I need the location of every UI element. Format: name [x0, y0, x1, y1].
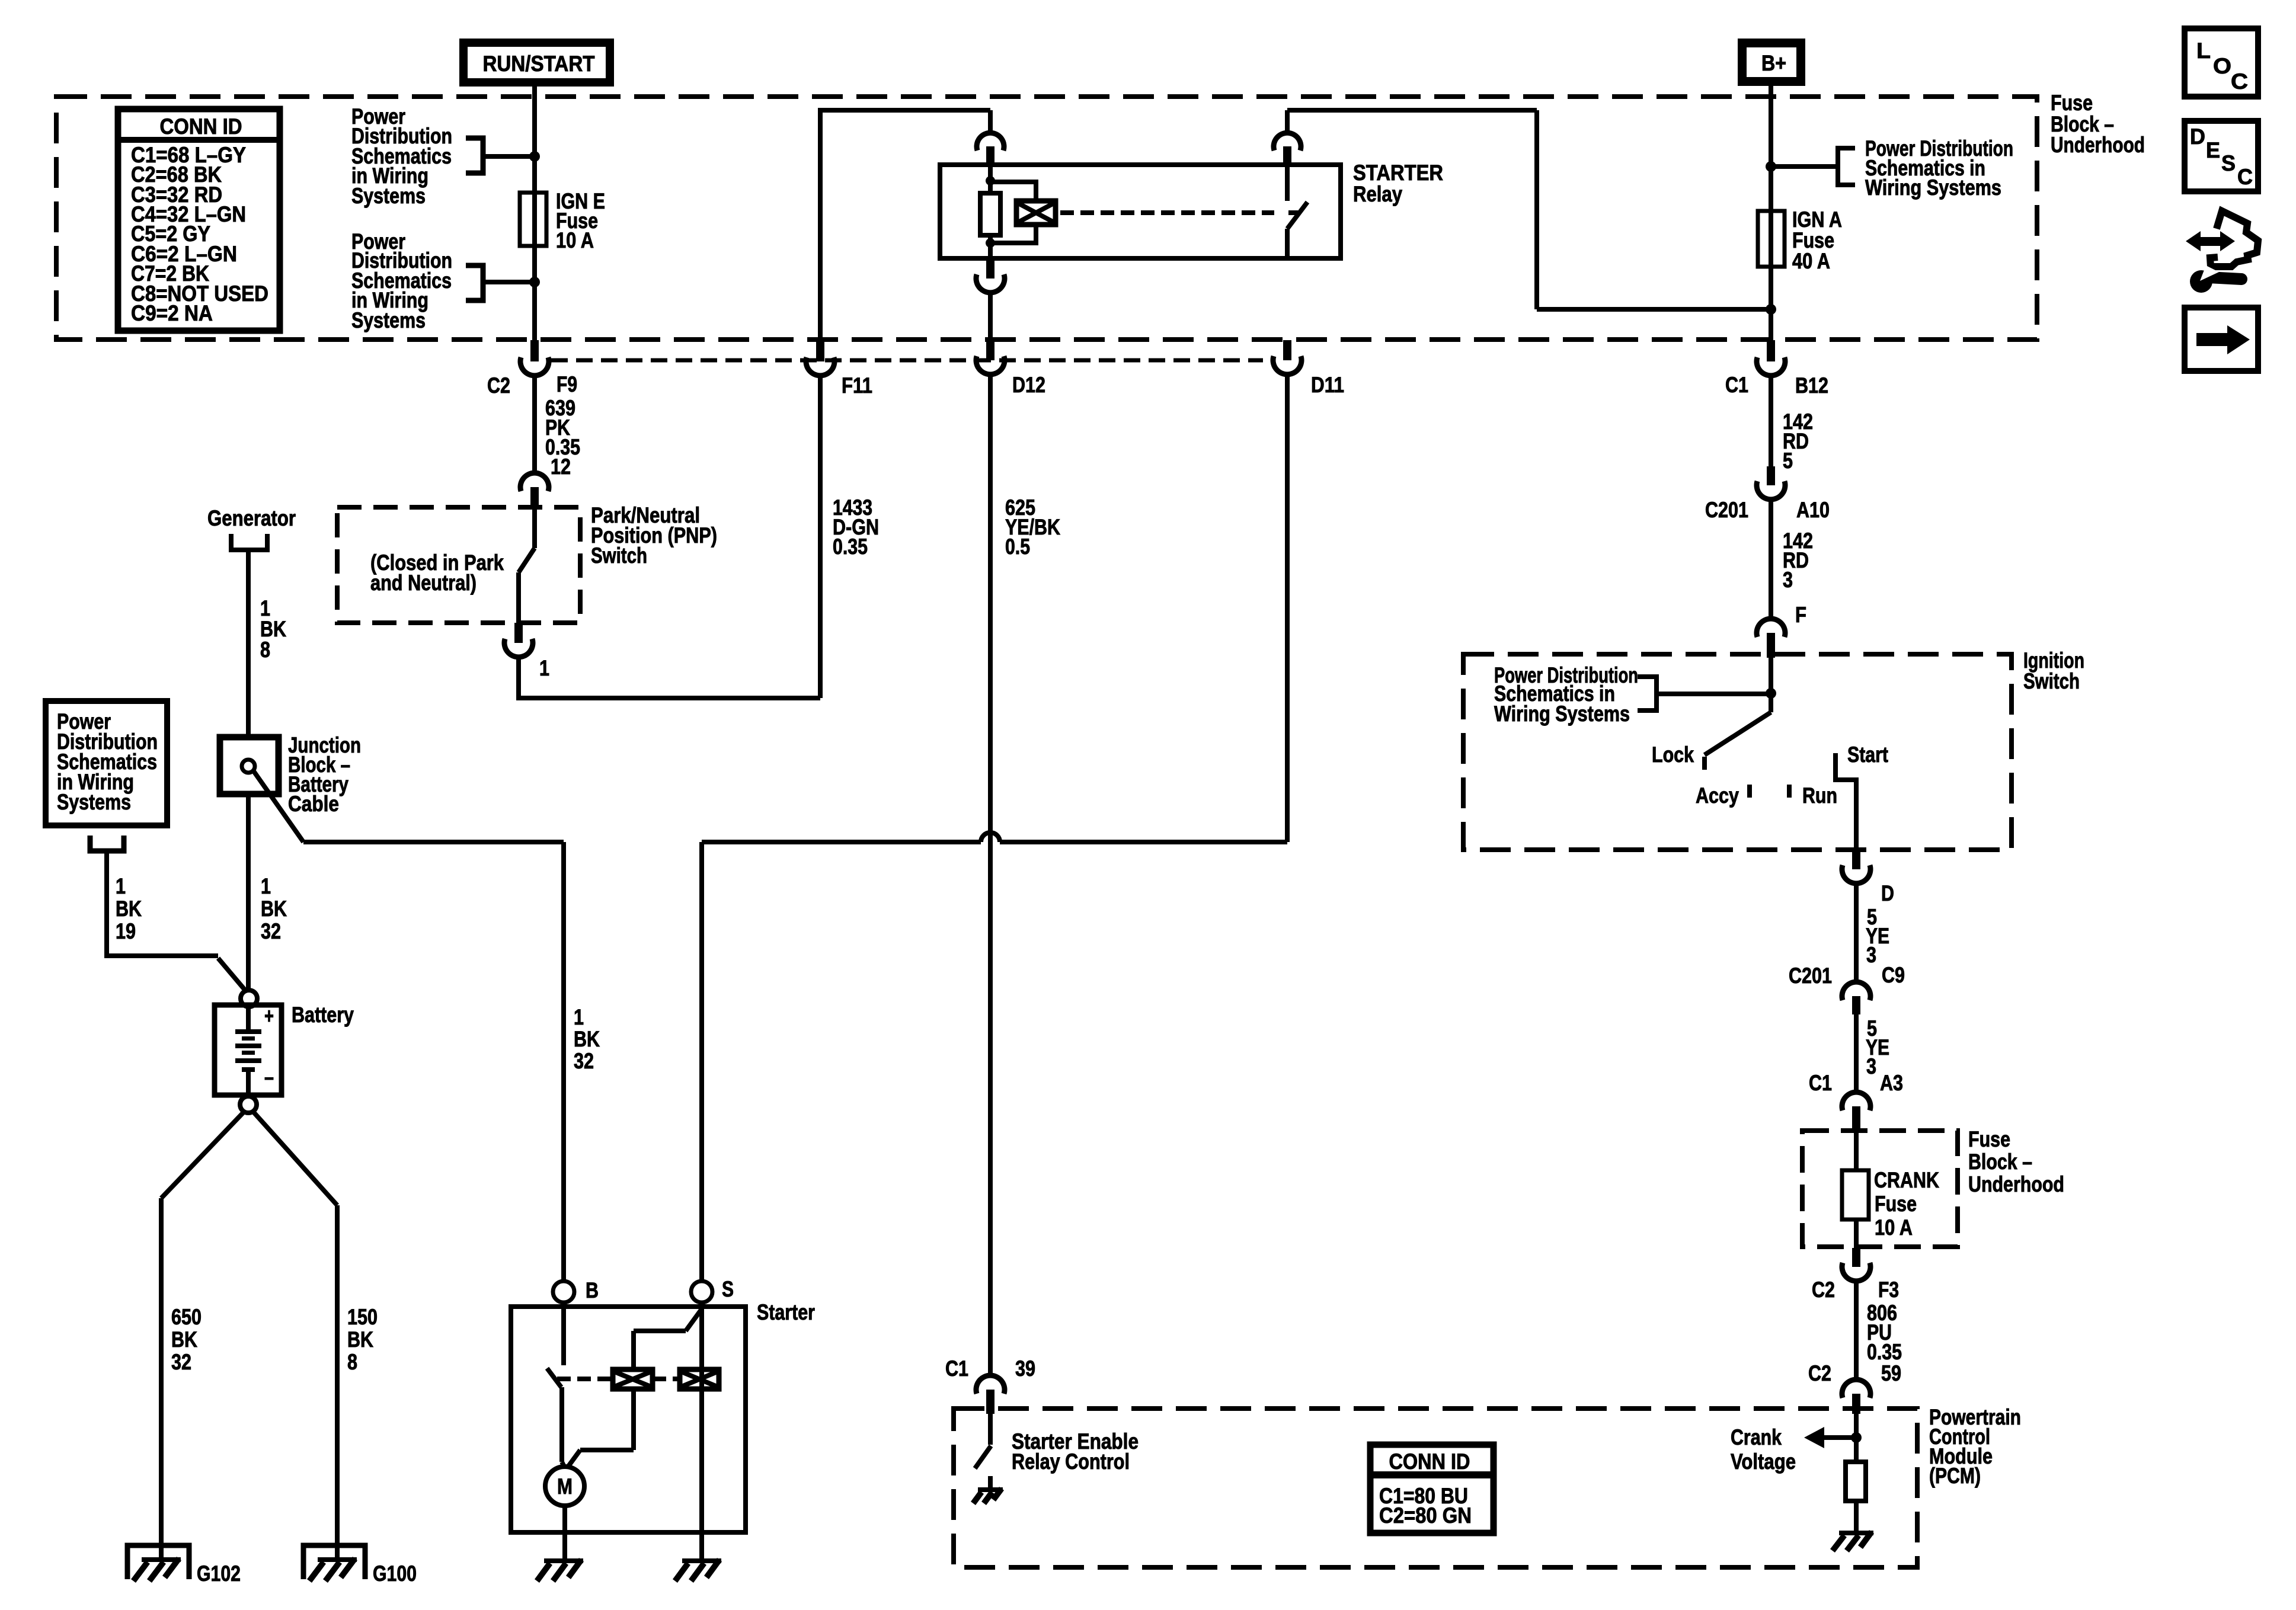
- starter enable relay control switch: [975, 1414, 991, 1489]
- svg-text:Wiring Systems: Wiring Systems: [1494, 702, 1630, 726]
- generator terminal bracket: [231, 534, 267, 550]
- svg-text:A10: A10: [1796, 498, 1830, 522]
- CONN ID table PCM: [1370, 1445, 1494, 1533]
- wire 5 YE 3 lower: [1856, 1014, 1889, 1093]
- svg-text:10 A: 10 A: [556, 228, 594, 252]
- ground starter solenoid: [682, 1558, 721, 1563]
- wire RUN/START feed down to connector C2: [532, 82, 537, 341]
- terminal S: [691, 1277, 734, 1302]
- label Ignition Switch: [2023, 648, 2084, 693]
- starter solenoid hold-in winding: [680, 1369, 719, 1389]
- svg-text:Wiring Systems: Wiring Systems: [1865, 175, 2001, 200]
- svg-text:Block –: Block –: [1968, 1150, 2032, 1174]
- fuse block underhood dashed box (crank): [1802, 1131, 1958, 1247]
- bracket to power distribution upper: [466, 138, 535, 173]
- svg-text:Systems: Systems: [57, 790, 131, 814]
- svg-text:1: 1: [574, 1005, 584, 1029]
- wire B+ feed: [1769, 80, 1773, 341]
- ground PCM internal: [1839, 1531, 1873, 1535]
- contact Start: [1835, 742, 1888, 852]
- connector at PNP switch pin 12: [520, 473, 549, 507]
- fuse IGN E 10A: [520, 189, 605, 252]
- wire relay switch feed from IGN A: [1287, 110, 1771, 309]
- svg-text:A3: A3: [1880, 1071, 1903, 1095]
- svg-text:19: 19: [116, 919, 136, 943]
- bracket to power distribution ignition: [1638, 677, 1771, 710]
- node junction dot on RUN/START feed upper: [529, 151, 540, 162]
- connector C201 pin C9: [1789, 963, 1905, 1014]
- connector PNP pin 1: [504, 623, 549, 680]
- svg-text:150: 150: [347, 1305, 378, 1329]
- svg-text:32: 32: [171, 1350, 191, 1374]
- connector C2 pin F3: [1812, 1248, 1899, 1302]
- svg-text:and Neutral): and Neutral): [370, 571, 477, 595]
- svg-text:C2: C2: [1808, 1361, 1831, 1385]
- svg-text:10 A: 10 A: [1875, 1215, 1913, 1240]
- ground G100: [303, 1545, 417, 1586]
- svg-text:S: S: [2221, 151, 2236, 175]
- PNP switch contacts: [519, 507, 535, 623]
- connector D12: [976, 340, 1045, 397]
- svg-text:BK: BK: [171, 1327, 197, 1352]
- svg-text:C9=2 NA: C9=2 NA: [131, 301, 213, 325]
- wire crank fuse to C2: [1854, 1219, 1859, 1249]
- starter relay linkage (dashed): [1060, 210, 1298, 215]
- svg-text:F: F: [1795, 603, 1806, 627]
- connector F11: [806, 340, 872, 398]
- connector C2 pin 59: [1808, 1361, 1901, 1414]
- svg-text:3: 3: [1783, 568, 1793, 592]
- svg-text:G100: G100: [373, 1561, 417, 1586]
- ground starter enable: [978, 1487, 1003, 1492]
- icon LOC box: [2185, 28, 2258, 97]
- svg-text:Battery: Battery: [292, 1003, 354, 1027]
- bracket below power distribution box: [90, 836, 124, 851]
- contact Accy: [1696, 783, 1752, 808]
- svg-text:O: O: [2213, 54, 2231, 78]
- node junction dot IGN A top: [1766, 161, 1776, 172]
- resistor PCM pull-down: [1846, 1462, 1866, 1501]
- wire junction block to battery positive: [248, 794, 287, 990]
- label power distribution schematics battery box: [46, 701, 167, 825]
- svg-text:Fuse: Fuse: [1968, 1127, 2010, 1151]
- svg-text:+: +: [264, 1004, 274, 1028]
- svg-text:Lock: Lock: [1652, 742, 1694, 767]
- connector C2 pin F9: [487, 340, 577, 398]
- connector D: [1842, 850, 1894, 905]
- svg-text:CONN ID: CONN ID: [1389, 1449, 1470, 1474]
- svg-text:Accy: Accy: [1696, 783, 1739, 808]
- svg-text:39: 39: [1015, 1356, 1035, 1381]
- label Crank Voltage: [1731, 1425, 1796, 1474]
- svg-text:G102: G102: [197, 1561, 241, 1586]
- starter relay coil suppressor: [990, 182, 1056, 243]
- wire PNP pin 1 to F11: [519, 657, 820, 698]
- wire battery negative to G102: [161, 1112, 244, 1561]
- svg-text:B12: B12: [1795, 373, 1828, 398]
- starter relay box: [940, 165, 1341, 258]
- node junction dot IGN A bottom: [1766, 304, 1776, 315]
- wire resistor to ground: [1854, 1501, 1859, 1532]
- svg-text:Voltage: Voltage: [1731, 1449, 1796, 1474]
- svg-text:C2: C2: [487, 373, 510, 398]
- connector C1 pin A3: [1809, 1071, 1903, 1129]
- wire starter S to ground: [699, 1302, 704, 1560]
- svg-text:M: M: [557, 1474, 573, 1499]
- ground starter motor: [544, 1558, 583, 1563]
- svg-text:(PCM): (PCM): [1929, 1464, 1981, 1488]
- label power distribution schematics ignition: [1494, 663, 1638, 726]
- svg-text:C9: C9: [1882, 963, 1905, 987]
- power feed box RUN/START: [463, 43, 610, 82]
- starter motor M: [545, 1467, 584, 1506]
- starter solenoid contact switch: [547, 1302, 565, 1468]
- svg-text:D11: D11: [1311, 373, 1344, 397]
- svg-text:650: 650: [171, 1305, 202, 1329]
- starter solenoid pull-in winding: [613, 1369, 653, 1389]
- wire 1433 D-GN labels: [820, 376, 879, 698]
- svg-text:0.35: 0.35: [1867, 1340, 1902, 1364]
- wire 1 BK 19 to battery positive: [107, 853, 247, 993]
- icon arrow box: [2185, 308, 2258, 371]
- label power distribution schematics right: [1865, 136, 2013, 200]
- starter S internal wiring: [567, 1309, 702, 1468]
- power feed box B+: [1742, 43, 1801, 82]
- node ignition switch common: [1766, 658, 1776, 712]
- fuse IGN A 40A: [1758, 207, 1842, 273]
- svg-text:59: 59: [1881, 1361, 1901, 1385]
- wire D11 to starter S terminal: [702, 375, 1287, 1282]
- wire 142 RD 3: [1771, 500, 1813, 620]
- svg-text:Relay: Relay: [1353, 182, 1402, 206]
- svg-text:S: S: [722, 1277, 734, 1301]
- starter box: [511, 1307, 746, 1532]
- svg-text:B+: B+: [1761, 51, 1786, 75]
- ground G102: [127, 1545, 241, 1586]
- svg-text:C: C: [2231, 69, 2248, 94]
- svg-text:C201: C201: [1789, 964, 1832, 988]
- svg-text:F11: F11: [842, 373, 872, 398]
- bracket to power distribution right: [1771, 148, 1855, 185]
- svg-text:F3: F3: [1878, 1278, 1899, 1302]
- wire F11 up to starter relay coil: [818, 110, 990, 341]
- svg-text:F9: F9: [557, 372, 577, 396]
- svg-text:C2: C2: [1812, 1278, 1835, 1302]
- svg-text:Start: Start: [1847, 742, 1888, 767]
- connector line (dotted): [551, 359, 1263, 363]
- svg-text:Crank: Crank: [1731, 1425, 1782, 1449]
- CONN ID table underhood: [118, 109, 280, 331]
- wire 5 YE 3 upper: [1856, 884, 1889, 983]
- svg-text:32: 32: [261, 919, 281, 943]
- ignition switch dashed box: [1463, 654, 2012, 850]
- starter solenoid linkage dashed: [557, 1377, 680, 1381]
- wire starter motor to ground: [562, 1506, 567, 1560]
- svg-text:Underhood: Underhood: [1968, 1172, 2064, 1196]
- crank voltage arrow: [1804, 1427, 1856, 1448]
- battery: [215, 990, 354, 1113]
- label Park/Neutral Position (PNP) Switch: [591, 503, 717, 568]
- label power distribution schematics lower: [351, 229, 452, 332]
- svg-text:Switch: Switch: [591, 543, 647, 568]
- powertrain control module dashed box: [954, 1409, 1917, 1567]
- svg-text:3: 3: [1866, 1054, 1876, 1078]
- label Fuse Block - Underhood: [2051, 91, 2145, 157]
- svg-text:BK: BK: [261, 897, 287, 921]
- wire 639 PK to PNP switch: [535, 376, 580, 479]
- wire C1 A3 to crank fuse: [1854, 1129, 1859, 1170]
- svg-text:5: 5: [1783, 449, 1793, 473]
- svg-text:Generator: Generator: [207, 506, 296, 530]
- svg-text:C: C: [2237, 165, 2253, 189]
- bracket to power distribution lower: [466, 265, 535, 300]
- svg-text:1: 1: [261, 874, 271, 898]
- svg-text:Fuse: Fuse: [1875, 1192, 1917, 1216]
- svg-text:0.35: 0.35: [833, 534, 868, 559]
- fuse CRANK 10A: [1842, 1168, 1939, 1240]
- label (Closed in Park and Neutral): [370, 550, 504, 595]
- wire battery negative to G100: [254, 1112, 378, 1561]
- connector C201 pin A10: [1705, 466, 1830, 522]
- label STARTER Relay: [1353, 161, 1443, 206]
- connector starter relay coil pin bottom: [976, 258, 1005, 293]
- svg-text:D12: D12: [1012, 373, 1045, 397]
- svg-text:32: 32: [574, 1049, 594, 1073]
- svg-text:CONN ID: CONN ID: [160, 114, 242, 139]
- svg-text:Systems: Systems: [351, 308, 426, 332]
- svg-text:1: 1: [539, 656, 549, 680]
- icon DESC box: [2185, 121, 2258, 191]
- starter relay coil: [980, 165, 1000, 258]
- wire crank voltage input: [1851, 1414, 1862, 1462]
- svg-text:Relay Control: Relay Control: [1012, 1449, 1130, 1474]
- svg-text:40 A: 40 A: [1792, 249, 1830, 273]
- svg-text:E: E: [2206, 138, 2220, 162]
- wire 806 PU crank voltage: [1856, 1281, 1902, 1381]
- svg-text:C1: C1: [945, 1356, 968, 1381]
- icon hand with wrench: [2186, 211, 2258, 293]
- svg-text:12: 12: [551, 454, 571, 479]
- svg-text:8: 8: [260, 638, 270, 662]
- contact Run: [1787, 783, 1837, 808]
- label Junction Block - Battery Cable: [288, 733, 361, 816]
- svg-text:1: 1: [116, 874, 126, 898]
- svg-text:BK: BK: [347, 1327, 373, 1352]
- svg-text:D: D: [1881, 881, 1894, 905]
- svg-text:RUN/START: RUN/START: [483, 52, 595, 76]
- ignition switch lever: [1705, 712, 1771, 755]
- junction block - battery cable: [220, 737, 279, 794]
- label Starter Enable Relay Control: [1012, 1429, 1139, 1474]
- label Fuse Block - Underhood crank: [1968, 1127, 2064, 1196]
- starter relay switch: [1287, 165, 1307, 258]
- label power distribution schematics upper: [351, 104, 452, 208]
- connector C1 pin 39: [945, 1356, 1035, 1414]
- wire 625 YE/BK starter enable relay control: [990, 375, 1060, 1377]
- fuse block underhood dashed boundary: [56, 97, 2037, 340]
- connector C1 pin B12: [1725, 340, 1828, 398]
- wire relay coil to D12: [988, 293, 993, 341]
- svg-text:L: L: [2196, 39, 2211, 63]
- park/neutral position switch dashed box: [337, 507, 580, 623]
- wire 142 RD 5: [1771, 376, 1813, 473]
- svg-text:Run: Run: [1802, 783, 1837, 808]
- svg-text:Cable: Cable: [288, 792, 339, 816]
- node junction dot on RUN/START feed lower: [529, 277, 540, 287]
- connector starter relay coil pin top: [977, 133, 1004, 165]
- contact Lock: [1652, 742, 1707, 770]
- svg-text:CRANK: CRANK: [1874, 1168, 1939, 1192]
- connector F ignition switch: [1757, 603, 1806, 658]
- svg-text:Fuse: Fuse: [2051, 91, 2093, 115]
- terminal B: [553, 1278, 599, 1302]
- connector starter relay switch pin top: [1274, 133, 1301, 165]
- svg-text:8: 8: [347, 1350, 357, 1374]
- svg-text:C1: C1: [1809, 1071, 1832, 1095]
- svg-text:B: B: [586, 1278, 599, 1302]
- svg-text:Underhood: Underhood: [2051, 133, 2145, 157]
- svg-text:C2=80 GN: C2=80 GN: [1379, 1503, 1472, 1528]
- svg-text:Systems: Systems: [351, 184, 426, 208]
- svg-text:–: –: [264, 1065, 274, 1089]
- connector D11: [1273, 340, 1344, 397]
- svg-text:STARTER: STARTER: [1353, 161, 1443, 185]
- svg-text:BK: BK: [116, 897, 142, 921]
- label Powertrain Control Module (PCM): [1929, 1405, 2021, 1488]
- svg-text:Switch: Switch: [2023, 669, 2080, 693]
- wire battery cable to starter B: [253, 770, 600, 1282]
- svg-text:BK: BK: [574, 1027, 600, 1051]
- svg-text:Starter: Starter: [757, 1300, 815, 1324]
- svg-text:D: D: [2190, 124, 2205, 149]
- svg-text:C1: C1: [1725, 373, 1748, 397]
- svg-text:3: 3: [1866, 943, 1876, 967]
- svg-text:C201: C201: [1705, 498, 1748, 522]
- svg-text:0.5: 0.5: [1005, 534, 1030, 559]
- wire generator to junction block: [248, 552, 286, 737]
